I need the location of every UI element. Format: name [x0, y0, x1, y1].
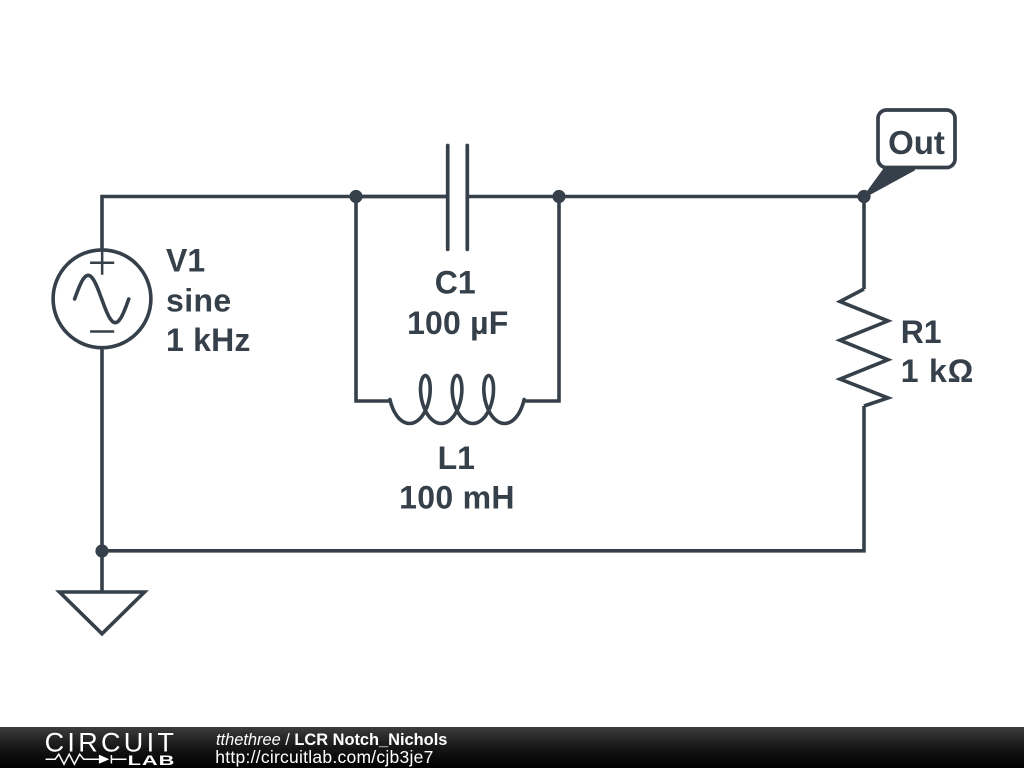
footer logo diode triangle [99, 755, 109, 764]
svg-text:http://circuitlab.com/cjb3je7: http://circuitlab.com/cjb3je7 [215, 747, 433, 767]
svg-text:LAB: LAB [128, 753, 176, 768]
node dot top-left junction [349, 190, 362, 203]
wire top rail right of capacitor [467, 197, 864, 290]
voltage source V1 circle [53, 250, 151, 348]
V1 sine wave symbol [75, 275, 129, 322]
svg-text:1 kHz: 1 kHz [166, 322, 251, 358]
svg-text:R1: R1 [901, 314, 942, 350]
Out flag box [878, 110, 955, 168]
capacitor C1 right plate [465, 146, 469, 250]
ground triangle [60, 592, 145, 634]
node dot Out junction [857, 190, 870, 203]
wire top rail left of capacitor [356, 195, 448, 199]
svg-text:L1: L1 [438, 440, 475, 476]
svg-text:100 mH: 100 mH [399, 480, 515, 516]
ground stem [100, 551, 104, 592]
svg-text:sine: sine [166, 282, 232, 318]
node dot top-right junction [552, 190, 565, 203]
footer logo resistor-diode squiggle [46, 754, 127, 764]
svg-text:1 kΩ: 1 kΩ [901, 353, 974, 389]
wire LC right branch vertical [524, 197, 559, 402]
wire top-left vertical (V1 top to top rail) [102, 197, 448, 249]
node dot ground junction [95, 544, 108, 557]
svg-text:C1: C1 [435, 264, 476, 300]
V1 plus sign [90, 251, 114, 275]
wire bottom rail [102, 406, 864, 551]
Out flag tail [864, 170, 915, 198]
wire LC left branch vertical [356, 197, 390, 402]
svg-text:V1: V1 [166, 243, 205, 279]
footer bar [0, 727, 1024, 768]
wire V1 bottom to bottom rail [100, 350, 104, 552]
capacitor C1 left plate [446, 146, 450, 250]
svg-text:Out: Out [888, 124, 945, 161]
inductor L1 coil [390, 376, 524, 424]
V1 minus sign [90, 330, 114, 333]
svg-text:100 µF: 100 µF [407, 305, 508, 341]
resistor R1 zigzag [840, 289, 888, 406]
